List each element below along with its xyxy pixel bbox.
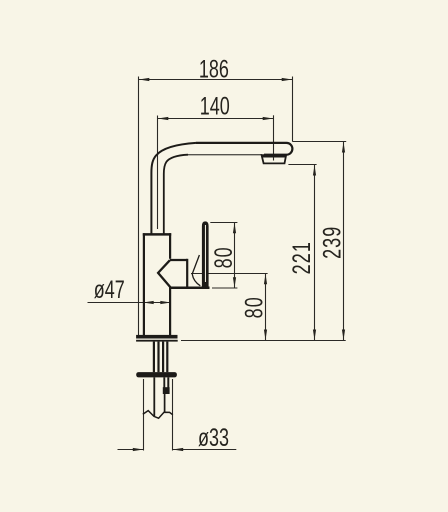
svg-text:239: 239: [318, 226, 347, 259]
svg-text:80: 80: [239, 296, 268, 318]
svg-text:ø33: ø33: [198, 423, 229, 452]
svg-text:80: 80: [209, 246, 238, 268]
svg-text:221: 221: [287, 241, 316, 274]
svg-text:186: 186: [199, 54, 229, 83]
svg-text:ø47: ø47: [94, 275, 125, 304]
svg-text:140: 140: [200, 92, 230, 121]
